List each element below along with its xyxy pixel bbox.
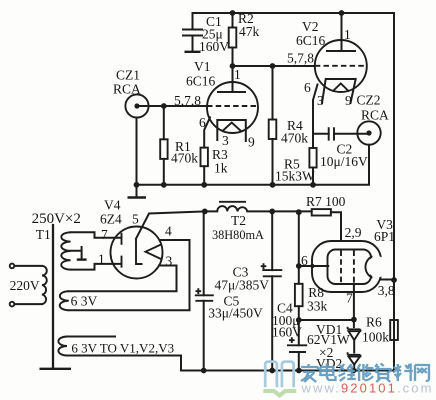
svg-text:4: 4 (165, 224, 172, 239)
svg-text:V2: V2 (302, 19, 319, 34)
svg-text:V4: V4 (104, 198, 121, 213)
svg-text:CZ2: CZ2 (357, 93, 381, 108)
svg-text:6: 6 (199, 115, 206, 130)
svg-text:V1: V1 (194, 59, 211, 74)
svg-text:6 3V TO V1,V2,V3: 6 3V TO V1,V2,V3 (71, 341, 174, 356)
svg-text:6P1: 6P1 (374, 229, 395, 244)
svg-text:6: 6 (301, 253, 308, 268)
svg-text:160V: 160V (199, 39, 229, 54)
svg-text:RCA: RCA (361, 108, 389, 123)
svg-text:1k: 1k (214, 161, 228, 176)
svg-text:6Z4: 6Z4 (100, 212, 122, 227)
svg-text:160V: 160V (272, 325, 302, 340)
svg-text:38H80mA: 38H80mA (212, 228, 264, 242)
svg-text:9: 9 (248, 135, 255, 150)
svg-text:5,7,8: 5,7,8 (287, 51, 314, 66)
svg-text:R7 100: R7 100 (306, 194, 346, 209)
svg-text:33k: 33k (307, 299, 328, 314)
svg-text:3,8: 3,8 (378, 283, 395, 298)
svg-text:2,9: 2,9 (345, 225, 362, 240)
svg-text:33μ/450V: 33μ/450V (208, 306, 263, 321)
svg-text:6: 6 (304, 80, 311, 95)
svg-text:5: 5 (132, 212, 139, 227)
svg-text:3: 3 (222, 133, 229, 148)
svg-text:1: 1 (234, 67, 241, 82)
svg-text:9: 9 (345, 93, 352, 108)
svg-text:7: 7 (101, 227, 108, 242)
svg-text:7: 7 (346, 291, 353, 306)
svg-text:6C16: 6C16 (186, 74, 216, 89)
svg-text:3: 3 (166, 254, 173, 269)
svg-text:47k: 47k (239, 24, 260, 39)
svg-text:T2: T2 (231, 213, 246, 228)
svg-text:15k3W: 15k3W (275, 169, 315, 184)
svg-text:R6: R6 (366, 315, 382, 330)
svg-text:6C16: 6C16 (296, 33, 326, 48)
svg-text:www.920101.com: www.920101.com (301, 380, 434, 395)
svg-text:CZ1: CZ1 (116, 68, 140, 83)
svg-text:470k: 470k (171, 151, 198, 166)
svg-text:T1: T1 (36, 227, 51, 242)
svg-text:470k: 470k (281, 131, 308, 146)
svg-text:10μ/16V: 10μ/16V (320, 154, 368, 169)
svg-text:1: 1 (98, 252, 105, 267)
svg-text:3: 3 (317, 93, 324, 108)
svg-text:RCA: RCA (113, 82, 141, 97)
svg-text:220V: 220V (10, 278, 40, 293)
svg-text:6 3V: 6 3V (71, 294, 98, 309)
svg-text:5,7,8: 5,7,8 (174, 93, 201, 108)
svg-text:250V×2: 250V×2 (32, 211, 81, 227)
svg-text:1: 1 (344, 27, 351, 42)
svg-text:47μ/385V: 47μ/385V (215, 278, 270, 293)
svg-text:100k: 100k (362, 330, 389, 345)
